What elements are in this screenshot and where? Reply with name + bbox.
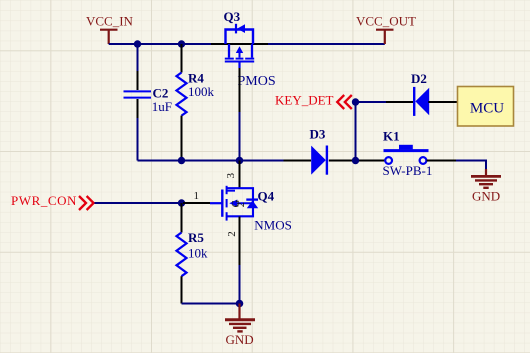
wire mid rail bbox=[138, 160, 284, 162]
junction C2/top bbox=[134, 40, 141, 47]
svg-text:D2: D2 bbox=[411, 71, 427, 86]
Q3 gate pin bbox=[239, 68, 241, 112]
junction bottom rail bbox=[236, 300, 244, 308]
svg-text:3: 3 bbox=[225, 173, 237, 179]
Q4 source pin bbox=[239, 217, 241, 266]
svg-text:GND: GND bbox=[472, 188, 500, 203]
svg-text:R5: R5 bbox=[188, 230, 204, 245]
junction R5 top bbox=[178, 199, 185, 206]
junction R4/top bbox=[178, 40, 185, 47]
power port VCC_OUT bbox=[356, 13, 416, 44]
svg-text:Q4: Q4 bbox=[258, 188, 275, 203]
wire KEY_DET down to mid rail bbox=[355, 102, 357, 161]
transistor Q4 (NMOS) bbox=[210, 186, 258, 221]
wire K1 to right GND bbox=[456, 161, 486, 170]
wire PWR_CON to R5/Q4 bbox=[95, 202, 184, 204]
Q4 drain pin bbox=[239, 161, 241, 189]
junction R4 bottom bbox=[178, 157, 185, 164]
wire top rail left (VCC_IN to Q3) bbox=[109, 43, 211, 45]
wire bottom rail bbox=[182, 303, 240, 305]
sheet symbol MCU bbox=[458, 87, 514, 127]
svg-text:D3: D3 bbox=[310, 127, 326, 142]
svg-text:NMOS: NMOS bbox=[254, 218, 292, 233]
svg-text:PMOS: PMOS bbox=[238, 74, 276, 89]
diode D2 bbox=[386, 87, 458, 116]
svg-text:VCC_IN: VCC_IN bbox=[86, 13, 134, 28]
switch K1 (SW-PB-1) bbox=[384, 145, 457, 164]
resistor R5 bbox=[177, 203, 187, 304]
svg-text:PWR_CON: PWR_CON bbox=[11, 193, 77, 208]
port KEY_DET bbox=[275, 92, 352, 109]
diode D3 bbox=[284, 146, 386, 175]
wire Q4 source to bottom rail bbox=[239, 265, 241, 304]
svg-text:2: 2 bbox=[236, 202, 247, 207]
svg-text:SW-PB-1: SW-PB-1 bbox=[383, 163, 433, 178]
svg-text:100k: 100k bbox=[188, 84, 215, 99]
svg-text:1: 1 bbox=[194, 190, 200, 202]
wire KEY_DET to D2 bbox=[356, 101, 387, 103]
wire Q3 gate to mid rail bbox=[239, 112, 241, 161]
ground bottom bbox=[225, 304, 255, 347]
capacitor C2 bbox=[124, 44, 152, 161]
svg-text:Q3: Q3 bbox=[224, 9, 241, 24]
svg-text:KEY_DET: KEY_DET bbox=[275, 92, 334, 107]
svg-text:MCU: MCU bbox=[470, 101, 504, 117]
wire top rail right (Q3 to VCC_OUT) bbox=[268, 43, 385, 45]
svg-text:1uF: 1uF bbox=[152, 99, 172, 114]
svg-text:GND: GND bbox=[226, 332, 254, 347]
Q4 gate pin bbox=[183, 202, 210, 204]
port PWR_CON bbox=[11, 193, 94, 210]
ground right bbox=[471, 169, 501, 203]
junction KEY_DET node bbox=[352, 98, 359, 105]
svg-text:K1: K1 bbox=[383, 129, 400, 144]
power port VCC_IN bbox=[86, 13, 134, 44]
junction D3/K1 node bbox=[352, 157, 359, 164]
svg-text:10k: 10k bbox=[188, 245, 208, 260]
transistor Q3 (PMOS) bbox=[211, 24, 268, 68]
svg-text:VCC_OUT: VCC_OUT bbox=[356, 13, 416, 28]
junction mid rail / gate column bbox=[236, 157, 244, 165]
resistor R4 bbox=[177, 44, 187, 161]
svg-text:2: 2 bbox=[226, 231, 238, 237]
